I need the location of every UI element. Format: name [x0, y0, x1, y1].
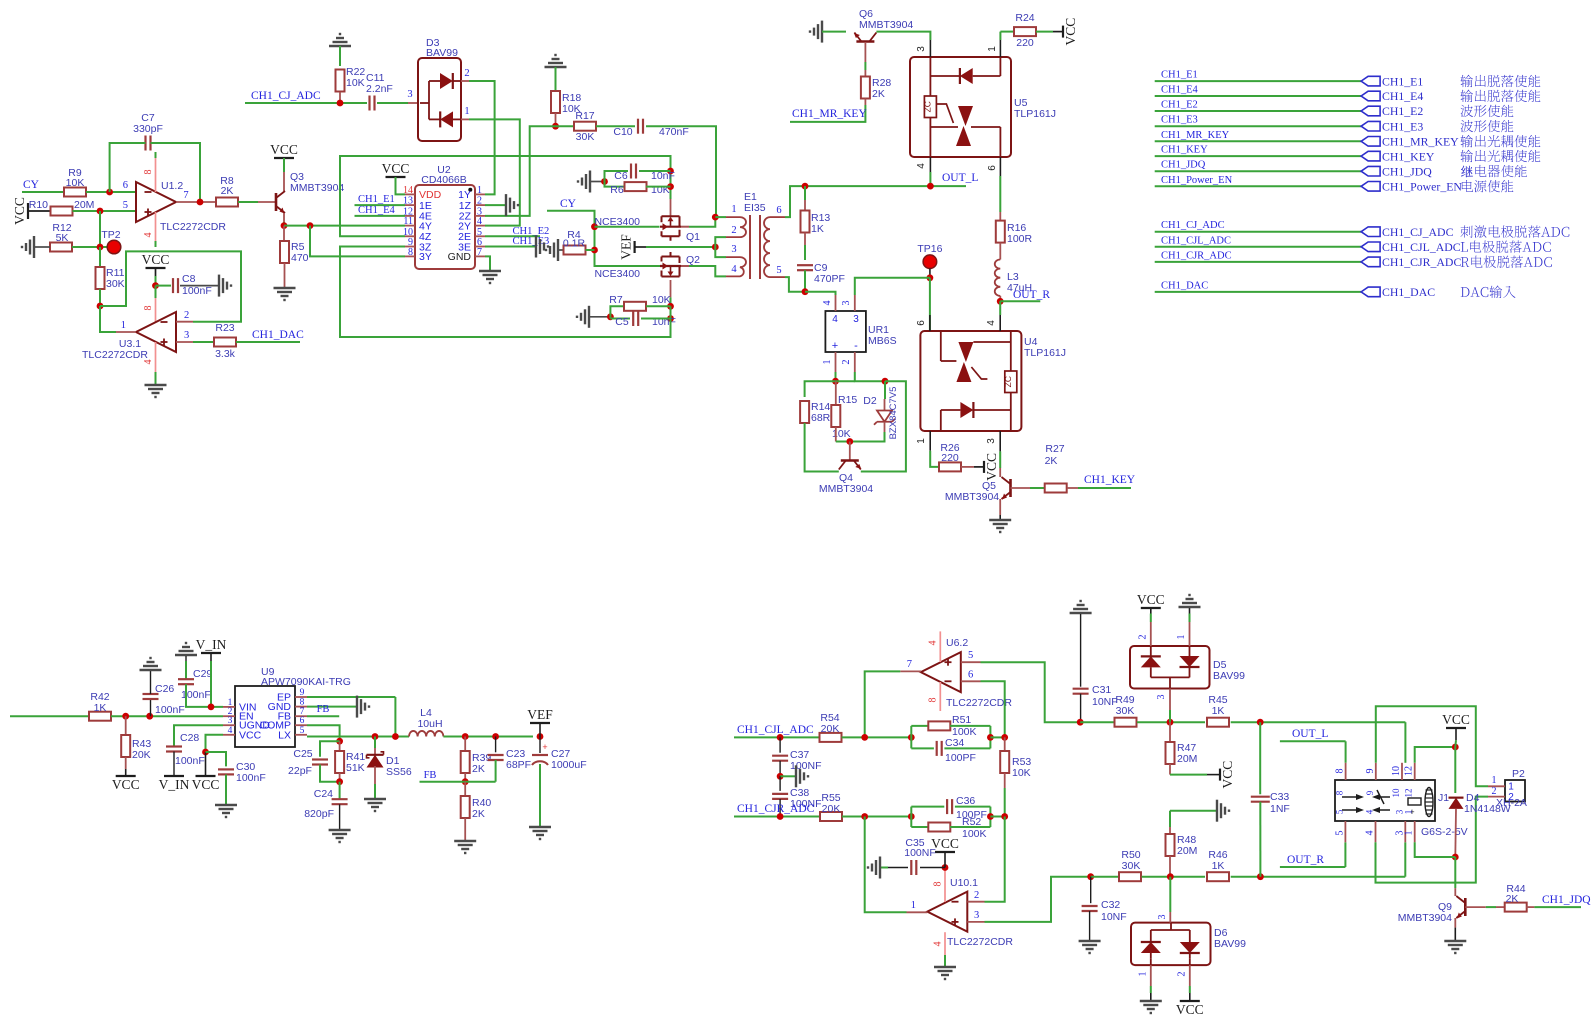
svg-text:10: 10 [1391, 788, 1401, 798]
svg-text:3: 3 [974, 910, 979, 921]
wire E1 pin5 down to C9 row [785, 277, 805, 292]
svg-text:4: 4 [143, 360, 154, 365]
wire R27 to CH1_KEY [1067, 487, 1078, 489]
resistor R26 [939, 462, 961, 471]
resistor R54 [820, 733, 842, 742]
svg-text:3Y: 3Y [419, 251, 432, 263]
ground right of U2 pin2 [505, 194, 507, 216]
svg-text:5: 5 [776, 265, 781, 276]
power VCC for U3.1 [146, 267, 166, 269]
svg-text:CH1_KEY: CH1_KEY [1382, 149, 1435, 163]
resistor R46 [1207, 872, 1229, 881]
svg-text:2K: 2K [1506, 893, 1519, 905]
wire COMP pin6 down to R41 [307, 725, 340, 741]
capacitor C11 [368, 96, 370, 111]
svg-text:12: 12 [1404, 789, 1414, 798]
svg-text:CD4066B: CD4066B [421, 174, 467, 186]
junction C37 top [777, 734, 784, 741]
resistor R49 [1115, 718, 1137, 727]
junction R7 right [667, 303, 674, 310]
svg-text:1: 1 [1176, 635, 1187, 640]
port CH1_DAC [1361, 287, 1380, 297]
wire C9 to E1 pin5 row [804, 270, 806, 291]
capacitor C31 [1080, 614, 1082, 687]
net label FB bottom [420, 781, 496, 783]
wire C5 left leg [609, 317, 611, 319]
svg-text:2K: 2K [872, 88, 885, 100]
wire C9 row to UR1 pin4 [805, 292, 836, 295]
capacitor C8 [156, 285, 172, 287]
svg-text:6: 6 [300, 716, 305, 726]
bridge rectifier UR1 MB6S [825, 311, 866, 352]
description 输出脱落使能 [1460, 75, 1540, 87]
resistor R39 [464, 737, 466, 752]
resistor R45 [1207, 718, 1229, 727]
svg-text:R24: R24 [1015, 12, 1034, 24]
svg-text:3: 3 [731, 244, 736, 255]
junction C27/VEF [537, 733, 544, 740]
wire U4 pin1 to R26 [930, 451, 939, 467]
svg-text:CH1_DAC: CH1_DAC [1161, 280, 1208, 291]
wire node to R14 branch [805, 381, 836, 397]
optocoupler U4 TLP161J [920, 331, 1021, 431]
UR1 pin1 stub [835, 352, 837, 372]
wire R23 to CH1_DAC [236, 341, 300, 343]
IC U2 CD4066B [415, 185, 475, 269]
resistor R18 [551, 91, 560, 113]
svg-text:820pF: 820pF [304, 808, 334, 820]
wire pin5 node down to TP2 row [99, 211, 101, 247]
wire C11 to D3 pin3 [377, 102, 408, 104]
junction node TP2 [97, 244, 104, 251]
junction C6 right [667, 168, 674, 175]
svg-text:CH1_E1: CH1_E1 [1161, 70, 1198, 81]
junction C31 node [1077, 719, 1084, 726]
wire R17 to C10 [596, 125, 635, 127]
wire net CH1_E4 [1155, 95, 1361, 97]
wire C31 node to R49 [1080, 721, 1114, 723]
svg-text:EI35: EI35 [744, 202, 766, 214]
net label FB at pin7 [307, 715, 339, 717]
svg-text:C28: C28 [180, 732, 199, 744]
diode D4 1N4148W [1454, 747, 1456, 793]
svg-text:VEF: VEF [619, 234, 634, 260]
junction node R11 bottom [97, 303, 104, 310]
U2 pin 12 stub [405, 215, 415, 217]
svg-text:VCC: VCC [1137, 592, 1165, 607]
svg-text:6: 6 [987, 165, 998, 171]
resistor R47 [1169, 722, 1171, 742]
U3.1 pin2 stub [176, 321, 193, 323]
svg-text:BZX84C7V5: BZX84C7V5 [888, 387, 899, 440]
junction R6 right [667, 183, 674, 190]
op-amp U6.2 [921, 652, 961, 692]
ground above R18 [545, 66, 567, 68]
wire pin2 to R53 node [985, 817, 1005, 902]
D5 pin3 stub [1169, 689, 1171, 711]
svg-text:4: 4 [1365, 831, 1376, 836]
svg-text:V_IN: V_IN [196, 637, 227, 652]
svg-text:1K: 1K [811, 223, 824, 235]
svg-text:6: 6 [968, 670, 973, 681]
port CH1_E3 [1361, 121, 1380, 131]
wire C10 to Q1 node [646, 126, 716, 217]
description 输出脱落使能 [1460, 90, 1540, 102]
svg-text:8: 8 [933, 882, 944, 887]
wire VCC to C8 node [155, 268, 157, 276]
junction C38 bottom [777, 813, 784, 820]
U2 pin 9 stub [405, 246, 415, 248]
wire net CH1_KEY [1155, 155, 1361, 157]
U2 pin 11 stub [405, 225, 415, 227]
junction R51 left [908, 734, 915, 741]
svg-text:0.1R: 0.1R [563, 238, 586, 250]
wire net CH1_CJR_ADC [1155, 261, 1361, 263]
U10.1 pin1 stub [907, 911, 928, 913]
junction C26 [146, 713, 153, 720]
ground above C31 [1070, 612, 1092, 614]
power VEF [633, 241, 635, 253]
wire Q6 collector to U5 pin3 [876, 32, 930, 40]
resistor R16 [999, 212, 1001, 221]
svg-text:1: 1 [1508, 782, 1514, 793]
transistor Q3 MMBT3904 [283, 172, 285, 191]
svg-text:LX: LX [278, 729, 291, 741]
svg-text:2: 2 [184, 310, 189, 321]
junction node C6/R6 left [601, 178, 608, 185]
svg-text:C10: C10 [613, 126, 632, 138]
U10.1 power pin8 stem [944, 869, 946, 902]
svg-text:VCC: VCC [12, 197, 27, 225]
capacitor C27 polarized [539, 737, 541, 754]
wire U5 pin1 to R24 [999, 32, 1001, 40]
svg-text:TLC2272CDR: TLC2272CDR [947, 936, 1013, 948]
wire R7 left leg [610, 306, 624, 317]
wire Q2 drain down to R7/C5 [670, 280, 672, 297]
wire Q9 emitter to ground [1454, 918, 1456, 928]
svg-text:CH1_KEY: CH1_KEY [1084, 474, 1136, 486]
wire to relay pin3 [1404, 842, 1406, 876]
svg-text:CH1_Power_EN: CH1_Power_EN [1382, 180, 1462, 194]
svg-text:10K: 10K [652, 294, 671, 306]
wire R8 to Q3 base [238, 201, 258, 203]
junction node C8/VCC [152, 282, 159, 289]
svg-text:5: 5 [300, 726, 305, 736]
wire net CH1_E3 [1155, 125, 1361, 127]
wire U2 pin2 to ground [485, 204, 505, 206]
svg-text:V_IN: V_IN [159, 777, 190, 792]
svg-text:10: 10 [1391, 766, 1402, 776]
ground above C26 [140, 669, 162, 671]
resistor R42 [89, 712, 111, 721]
capacitor C29 [185, 656, 187, 661]
svg-text:D2: D2 [863, 395, 877, 407]
svg-text:30K: 30K [1122, 860, 1141, 872]
ground right of C37 [780, 775, 795, 777]
ground left of C6/R6 [589, 171, 591, 193]
junction C33 bottom node [1257, 873, 1264, 880]
svg-text:100PF: 100PF [945, 752, 976, 764]
port CH1_MR_KEY [1361, 137, 1380, 147]
svg-text:470: 470 [291, 252, 309, 264]
svg-text:4: 4 [731, 264, 737, 275]
svg-text:8: 8 [1335, 790, 1345, 795]
D3 pin1 stub [461, 118, 469, 120]
capacitor C26 [150, 699, 152, 716]
ground below Q5 [989, 519, 1011, 521]
svg-text:220: 220 [1016, 37, 1034, 49]
D5 pin2 stub [1150, 622, 1152, 646]
svg-text:TP16: TP16 [917, 243, 942, 255]
svg-text:CH1_E4: CH1_E4 [358, 205, 396, 216]
svg-text:CH1_MR_KEY: CH1_MR_KEY [792, 108, 867, 120]
ground left of Q6 [821, 21, 823, 43]
svg-text:2K: 2K [472, 763, 485, 775]
wire node row [836, 380, 855, 382]
wire CY to R9 [22, 191, 64, 193]
ground right of C8 [218, 275, 220, 297]
wire pin6 to R51 right node [981, 681, 1005, 737]
wire C6 right leg [639, 170, 671, 172]
wire GND pin8 to ground [307, 706, 356, 708]
wire CY to gates [547, 211, 660, 266]
svg-text:TP2: TP2 [101, 229, 120, 241]
U2 pin 10 stub [405, 235, 415, 237]
svg-text:1K: 1K [94, 702, 107, 714]
junction node R22 bottom [337, 100, 344, 107]
junction output node [861, 734, 868, 741]
D5 pin1 stub [1189, 622, 1191, 646]
svg-text:5: 5 [1334, 809, 1344, 814]
junction R43 [122, 713, 129, 720]
svg-text:100NF: 100NF [904, 847, 936, 859]
junction VEF node [712, 244, 719, 251]
svg-text:BAV99: BAV99 [1214, 938, 1246, 950]
D6 pin2 stub [1189, 965, 1191, 986]
resistor R10 [51, 207, 73, 216]
description R电极脱落ADC [1461, 256, 1552, 268]
capacitor C38 [779, 776, 781, 791]
junction OUT_R [997, 298, 1004, 305]
svg-text:C8: C8 [182, 273, 196, 285]
wire C29 to pin1 row [186, 684, 223, 707]
svg-text:14: 14 [403, 185, 413, 196]
svg-text:TLP161J: TLP161J [1024, 347, 1066, 359]
svg-text:VCC: VCC [192, 777, 220, 792]
ground below C24 [329, 829, 351, 831]
U2 pin 3 stub [475, 215, 485, 217]
svg-text:6: 6 [776, 205, 781, 216]
power VCC above relay [1446, 727, 1466, 729]
wire pin3 to R23 [193, 341, 214, 343]
svg-text:R27: R27 [1045, 443, 1064, 455]
U1.2 power pin 8 stem [155, 158, 157, 192]
svg-text:20M: 20M [1177, 845, 1197, 857]
U2 pin 4 stub [475, 225, 485, 227]
svg-text:6: 6 [916, 320, 927, 326]
junction C23 [492, 733, 499, 740]
op-amp U10.1 [927, 892, 967, 932]
svg-text:1: 1 [477, 185, 482, 196]
svg-text:1: 1 [1492, 775, 1497, 786]
transistor Q4 MMBT3904 [849, 442, 851, 461]
svg-text:CH1_E1: CH1_E1 [1382, 74, 1423, 88]
svg-text:OUT_R: OUT_R [1287, 854, 1324, 866]
U4 pin6 stub [929, 315, 931, 331]
wire L4 to VEF node [443, 736, 533, 738]
resistor R17 [574, 122, 596, 131]
wire C7 left leg [110, 143, 146, 192]
svg-text:Q2: Q2 [686, 254, 700, 266]
svg-text:CH1_E3: CH1_E3 [1382, 119, 1423, 133]
ground below D1 [364, 798, 386, 800]
svg-text:2: 2 [1508, 792, 1514, 803]
svg-text:100NF: 100NF [790, 760, 822, 772]
junction node output/C7 [197, 199, 204, 206]
wire net CH1_JDQ [1155, 170, 1361, 172]
power VCC below D6 [1180, 1000, 1200, 1002]
U2 pin 1 stub [475, 193, 485, 195]
diode D5 BAV99 [1130, 646, 1210, 689]
svg-text:5: 5 [1334, 831, 1345, 836]
svg-text:3: 3 [916, 46, 927, 52]
svg-text:20K: 20K [822, 803, 841, 815]
junction R51 right [987, 734, 994, 741]
P2 pin1 stub [1488, 785, 1505, 787]
wire CH1_E2 pin5 [485, 235, 540, 237]
junction CY/R4 [591, 247, 598, 254]
svg-text:30K: 30K [106, 278, 125, 290]
svg-text:4: 4 [916, 163, 927, 169]
svg-text:30K: 30K [576, 131, 595, 143]
relay J1 G6S-2-5V [1335, 780, 1435, 821]
wire R44 to CH1_JDQ [1526, 906, 1534, 908]
wire net CH1_E1 [1155, 80, 1361, 82]
resistor R7 [624, 302, 646, 311]
svg-text:C24: C24 [314, 788, 333, 800]
wire D3 pin1 to U2 pin4 [469, 119, 520, 225]
svg-text:VCC: VCC [1063, 18, 1078, 46]
svg-text:TLC2272CDR: TLC2272CDR [160, 221, 226, 233]
svg-text:SS56: SS56 [386, 766, 412, 778]
ground below R40 [454, 840, 476, 842]
resistor R43 [125, 716, 127, 735]
transistor Q2 NCE3400 [662, 267, 680, 277]
junction U10.1 output node [861, 813, 868, 820]
svg-text:MMBT3904: MMBT3904 [945, 491, 999, 503]
wire CH1_E1 to pin13 [355, 204, 406, 206]
wire relay pin4 to P2 pin2 [1376, 797, 1489, 883]
svg-text:3: 3 [184, 330, 189, 341]
svg-text:8: 8 [928, 698, 939, 703]
wire C5 right leg [641, 318, 671, 320]
junction D6 pin3 node [1167, 873, 1174, 880]
capacitor C6 [630, 164, 632, 179]
wire C7 right leg [151, 143, 201, 202]
wire VEF to center tap [635, 246, 646, 248]
svg-text:7: 7 [907, 659, 912, 670]
junction FB node [462, 778, 469, 785]
wire VCC to R10 [28, 210, 51, 212]
wire E1 pin2 to VEF node [715, 237, 726, 247]
wire U2 pin3 to R17 row [485, 126, 574, 216]
wire C30 to ground [225, 775, 227, 805]
wire R50 to D6 node [1142, 876, 1205, 878]
svg-text:8: 8 [143, 170, 154, 175]
test point TP16 [923, 255, 937, 269]
svg-text:5: 5 [123, 200, 128, 211]
svg-text:4: 4 [832, 314, 838, 325]
junction C37/C38 [777, 773, 784, 780]
junction EP branch [392, 733, 399, 740]
transformer E1 core [749, 215, 751, 279]
port CH1_CJL_ADC [1361, 242, 1380, 252]
svg-text:CH1_CJ_ADC: CH1_CJ_ADC [1161, 220, 1225, 231]
parallel R52 [911, 826, 928, 828]
svg-text:7: 7 [183, 190, 188, 201]
U5 pin1 stub [999, 40, 1001, 57]
D6 pin3 stub [1169, 877, 1171, 912]
capacitor C7 [144, 136, 146, 151]
wire C28 to V_IN down [173, 752, 175, 777]
power V_IN below C28 [164, 775, 184, 777]
U4 pin4 stub [999, 315, 1001, 331]
svg-text:MMBT3904: MMBT3904 [819, 483, 873, 495]
resistor R55 [820, 812, 842, 821]
svg-text:4: 4 [477, 216, 482, 227]
resistor R24 [1014, 27, 1036, 36]
resistor R27 [1045, 484, 1067, 493]
wire C26 to ground up [150, 669, 152, 694]
wire net CH1_MR_KEY [1155, 140, 1361, 142]
wire branch down to U2 pin8 [310, 226, 405, 257]
inductor L3 [995, 260, 1001, 296]
svg-text:10NF: 10NF [1092, 696, 1118, 708]
wire R46 to OUT_R node [1231, 876, 1406, 878]
U3.1 pin1 stub [116, 331, 136, 333]
UR1 pin3 stub [854, 295, 856, 311]
ground right of U2 pin6 [535, 236, 537, 258]
wire U5 pin6 to R16 [999, 176, 1001, 212]
wire D3 pin2 to U2 pin1 [469, 81, 495, 194]
power VCC above D5 [1141, 607, 1161, 609]
U6.2 pin6 stub [961, 680, 981, 682]
power VCC rotated for R10 [27, 203, 29, 219]
wire OUT_R to relay pin5 [1280, 866, 1346, 868]
port CH1_CJR_ADC [1361, 257, 1380, 267]
junction D2 node [882, 378, 889, 385]
svg-text:2: 2 [974, 890, 979, 901]
svg-text:1: 1 [911, 900, 916, 911]
svg-text:CH1_CJL_ADC: CH1_CJL_ADC [1382, 240, 1461, 254]
P2 pin2 stub [1488, 796, 1505, 798]
zener diode D2 BZX84C7V5 [884, 381, 886, 399]
wire node to R50 [1091, 876, 1119, 878]
wire U9 pin4 to VCC node [206, 735, 224, 752]
ground below Q9 [1444, 940, 1466, 942]
svg-text:R51: R51 [952, 714, 971, 726]
parallel C34 [911, 747, 934, 749]
svg-text:CH1_CJR_ADC: CH1_CJR_ADC [737, 803, 815, 815]
svg-text:CH1_CJL_ADC: CH1_CJL_ADC [1161, 235, 1231, 246]
parallel R51 [910, 726, 912, 749]
svg-text:R7: R7 [609, 294, 623, 306]
parallel C36 [910, 807, 912, 827]
wire CH1_E3 pin6 to ground [485, 246, 535, 248]
resistor R13 [804, 186, 806, 200]
svg-text:4: 4 [933, 942, 944, 947]
svg-text:NCE3400: NCE3400 [594, 216, 640, 228]
